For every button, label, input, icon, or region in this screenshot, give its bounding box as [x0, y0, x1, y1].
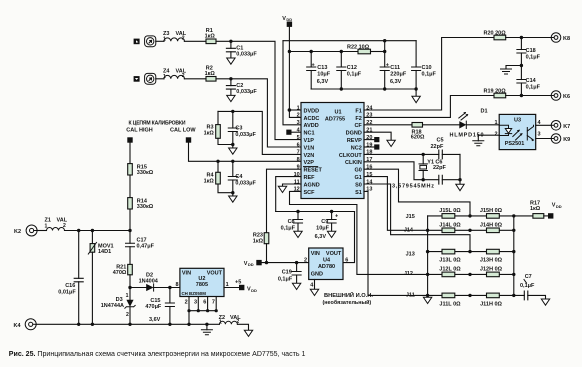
- U1 left pin names: [304, 108, 323, 195]
- svg-text:C18: C18: [526, 48, 536, 54]
- wire R4 bottom join C4: [218, 184, 233, 196]
- resistor R4 1k: [204, 161, 221, 184]
- svg-text:PS2501: PS2501: [505, 141, 525, 147]
- crystal Y1 3,579545MHz: [392, 154, 434, 189]
- svg-text:1: 1: [219, 320, 222, 326]
- svg-text:J14H 0Ω: J14H 0Ω: [480, 222, 503, 228]
- capacitor C14 0,1uF: [517, 66, 541, 96]
- jumper J15L 0R: [439, 208, 461, 218]
- svg-text:1кΩ: 1кΩ: [530, 206, 541, 212]
- resistor R14 330k: [128, 198, 154, 210]
- wire R14 down to Z1 row: [129, 209, 131, 231]
- svg-text:CLKIN: CLKIN: [345, 160, 362, 166]
- regulator U2 7805: [180, 268, 224, 296]
- svg-text:0,033μF: 0,033μF: [236, 89, 257, 95]
- svg-text:+: +: [335, 214, 338, 220]
- svg-text:DGND: DGND: [346, 131, 362, 137]
- connector K8: [551, 33, 570, 43]
- svg-text:3,6V: 3,6V: [149, 317, 161, 323]
- wire R18 to D1: [423, 124, 460, 126]
- capacitor C13 10uF 6,3V: [307, 52, 331, 90]
- junction D2/D3 node: [128, 286, 131, 289]
- J12 row wires: [428, 273, 514, 275]
- wire R19 to K6: [506, 95, 552, 97]
- svg-text:J11L 0Ω: J11L 0Ω: [439, 302, 461, 308]
- wire pin12 SCF route to J12 row: [290, 191, 428, 274]
- svg-text:0,033μF: 0,033μF: [235, 181, 256, 187]
- svg-text:RESET: RESET: [304, 168, 323, 174]
- svg-text:U3: U3: [514, 118, 521, 124]
- capacitor C6 22pF: [433, 159, 460, 184]
- svg-text:SCF: SCF: [304, 190, 316, 196]
- junction J15 right bus: [512, 214, 515, 217]
- capacitor C3 0,033uF: [228, 111, 256, 144]
- wire Z1 row to C17 chain: [65, 231, 131, 244]
- svg-text:VIN: VIN: [182, 271, 191, 277]
- svg-text:R19 20Ω: R19 20Ω: [484, 89, 507, 95]
- junction earth tee: [520, 64, 523, 67]
- svg-text:1: 1: [163, 37, 166, 43]
- capacitor C18 0,1uF: [517, 38, 541, 66]
- svg-text:DD: DD: [556, 204, 562, 209]
- svg-text:J13: J13: [406, 252, 415, 258]
- svg-text:0,1μF: 0,1μF: [281, 226, 296, 232]
- junction bus J12: [426, 273, 429, 276]
- svg-text:K4: K4: [13, 323, 21, 329]
- junction gnd rail C11: [383, 87, 386, 90]
- capacitor C12 0,1uF: [337, 52, 362, 90]
- junction R4C4: [231, 191, 234, 194]
- junction R23 bottom: [265, 261, 268, 264]
- wire R15 to R14: [129, 175, 131, 198]
- svg-text:AD780: AD780: [318, 264, 335, 270]
- ground below C9: [327, 231, 335, 237]
- svg-text:V2P: V2P: [304, 160, 315, 166]
- junction C13 top: [310, 50, 313, 53]
- voltage reference U4 AD780: [309, 248, 343, 280]
- svg-text:J14: J14: [404, 228, 414, 234]
- svg-text:1кΩ: 1кΩ: [253, 238, 264, 244]
- capacitor C15 470uF: [145, 288, 174, 325]
- junction C19 top: [295, 261, 298, 264]
- svg-text:C11: C11: [390, 65, 400, 71]
- svg-text:K8: K8: [563, 36, 570, 42]
- capacitor C10 0,1uF: [412, 41, 437, 89]
- wire pin15 G1 to J14 row: [364, 177, 428, 231]
- junction bus J11: [426, 294, 429, 297]
- wire VDD terminal down to rail and pin1 ACDC jog: [289, 27, 301, 118]
- capacitor C5 22pF: [431, 138, 461, 159]
- svg-text:0,033μF: 0,033μF: [235, 132, 256, 138]
- svg-text:2: 2: [126, 312, 129, 318]
- svg-text:CAL HIGH: CAL HIGH: [126, 127, 153, 133]
- earth ground symbol: [501, 69, 512, 74]
- svg-text:2: 2: [185, 300, 188, 306]
- ground below C2: [227, 95, 235, 101]
- ground triangle below C10: [412, 96, 420, 102]
- svg-text:1кΩ: 1кΩ: [204, 130, 215, 136]
- wire pin10 REF down to ref rail: [276, 177, 301, 212]
- junction C9 top: [330, 210, 333, 213]
- capacitor C9 10uF 6,3V: [315, 212, 339, 241]
- U2 ground rail: [189, 310, 216, 312]
- terminal K3: [134, 76, 140, 82]
- svg-text:CLKOUT: CLKOUT: [339, 153, 363, 159]
- ground below C8: [294, 231, 302, 237]
- wire pin22 CF to R18: [364, 124, 412, 126]
- svg-text:7: 7: [212, 300, 215, 306]
- junction U2 gnd bottom: [187, 323, 190, 326]
- svg-text:R22 10Ω: R22 10Ω: [347, 44, 370, 50]
- svg-text:6,3V: 6,3V: [317, 79, 329, 85]
- pin1 DVDD stub: [289, 109, 301, 111]
- svg-text:C3: C3: [235, 126, 242, 132]
- U1 left pin numbers 1-12: [294, 105, 301, 192]
- jumper J15H 0R: [480, 208, 503, 218]
- wire connector K1 to L3: [156, 40, 164, 42]
- junction Y1 top: [422, 153, 425, 156]
- junction C4 top: [231, 160, 234, 163]
- node VDD top terminal: [282, 16, 292, 27]
- capacitor C2 0,033uF: [226, 79, 257, 96]
- svg-text:K7: K7: [563, 124, 570, 130]
- junction J13 center: [468, 250, 471, 253]
- svg-text:5: 5: [297, 135, 300, 141]
- svg-text:6: 6: [203, 300, 206, 306]
- svg-text:F2: F2: [355, 116, 361, 122]
- junction J14 center: [468, 229, 471, 232]
- svg-text:1кΩ: 1кΩ: [205, 71, 216, 77]
- node VDD J network: [544, 203, 562, 219]
- connector K7: [551, 121, 570, 131]
- wire U3 pin4 to K7: [536, 124, 552, 126]
- svg-text:NC2: NC2: [351, 145, 362, 151]
- svg-text:DD: DD: [251, 288, 257, 293]
- inductor Z2 VAL: [219, 315, 242, 326]
- wire U4 GND down: [314, 280, 316, 290]
- svg-text:3: 3: [297, 120, 300, 126]
- svg-text:C4: C4: [235, 174, 243, 180]
- svg-text:0,01μF: 0,01μF: [58, 289, 76, 295]
- wire pin16 G0 to J15: [364, 169, 470, 216]
- U1 right pin names: [339, 108, 363, 195]
- junction C12 top: [340, 50, 343, 53]
- svg-text:7805: 7805: [196, 282, 208, 288]
- svg-text:J11: J11: [406, 293, 415, 299]
- junction pin1: [288, 108, 292, 112]
- wire pin24 F1 loop to R20: [364, 38, 494, 111]
- svg-text:C14: C14: [526, 78, 537, 84]
- svg-text:C13: C13: [317, 65, 327, 71]
- svg-text:U4: U4: [323, 257, 331, 263]
- wire V2N rail to pin 7: [218, 111, 301, 154]
- svg-text:C16: C16: [65, 283, 75, 289]
- junctions U2 rail: [187, 309, 217, 312]
- ground below U4: [310, 289, 318, 295]
- junction AVDD/riser: [383, 39, 386, 42]
- svg-text:3: 3: [538, 131, 541, 137]
- svg-text:Рис. 25. Принципиальная схема: Рис. 25. Принципиальная схема счетчика э…: [9, 351, 306, 358]
- junction C14 bottom: [520, 94, 523, 97]
- junction gnd riser: [458, 178, 461, 181]
- svg-text:CF: CF: [354, 123, 362, 129]
- node VDD near U4 terminal: [244, 260, 262, 267]
- svg-text:AVDD: AVDD: [304, 123, 319, 129]
- wire to chassis earth: [506, 66, 521, 70]
- ground below C19: [292, 283, 300, 289]
- capacitor C16 0,01uF: [58, 231, 83, 325]
- svg-text:G1: G1: [354, 175, 361, 181]
- svg-text:J15L 0Ω: J15L 0Ω: [439, 208, 461, 214]
- ground below crystal: [456, 184, 464, 190]
- svg-text:GND: GND: [311, 272, 323, 278]
- wire CAL LOW to V2P rail into pin 8: [189, 143, 302, 162]
- resistor R18 620R: [411, 123, 425, 141]
- VDD rail y51.5: [289, 51, 358, 53]
- svg-text:J13H 0Ω: J13H 0Ω: [480, 258, 503, 264]
- pin4 NC1 no-connect: [286, 130, 301, 135]
- ground after Z2: [244, 330, 252, 336]
- svg-text:1N4744A: 1N4744A: [101, 303, 124, 309]
- svg-text:J13L 0Ω: J13L 0Ω: [439, 258, 461, 264]
- jumper J11L 0R: [439, 293, 461, 308]
- svg-text:620Ω: 620Ω: [411, 135, 425, 141]
- ground DGND: [387, 140, 395, 146]
- diode D2 1N4004: [139, 273, 159, 292]
- svg-text:DD: DD: [248, 262, 254, 267]
- earth ground bottom: [201, 324, 212, 334]
- svg-text:0,1μF: 0,1μF: [520, 283, 535, 289]
- wire connector K3 to L4: [156, 78, 164, 80]
- terminal CAL LOW: [186, 137, 191, 142]
- junction C16 top: [77, 229, 80, 232]
- ground low bus: [423, 297, 431, 303]
- resistor R23 1k: [253, 233, 269, 245]
- svg-text:2: 2: [63, 223, 66, 229]
- svg-text:0,1μF: 0,1μF: [422, 71, 437, 77]
- capacitor C1 0,033uF: [226, 41, 257, 58]
- svg-text:1N4004: 1N4004: [139, 278, 159, 284]
- wire R1 to corner, node V1P: [216, 41, 301, 139]
- svg-text:DD: DD: [286, 17, 292, 22]
- svg-text:0,1μF: 0,1μF: [526, 85, 541, 91]
- svg-text:G0: G0: [354, 168, 361, 174]
- svg-text:(необязательный): (необязательный): [323, 299, 372, 306]
- junction C15 bottom: [168, 323, 171, 326]
- junction row2/C2: [229, 77, 232, 80]
- resistor R15 330k: [128, 164, 154, 176]
- svg-text:VOUT: VOUT: [326, 251, 342, 257]
- junction earth drop: [205, 323, 208, 326]
- svg-text:V1P: V1P: [304, 138, 315, 144]
- svg-text:1: 1: [163, 74, 166, 80]
- wire CAL HIGH down: [129, 143, 131, 164]
- svg-text:C5: C5: [437, 138, 444, 144]
- wire D2 to U2 pin8: [154, 287, 180, 289]
- inductor Z3 VAL: [163, 31, 187, 43]
- svg-text:1кΩ: 1кΩ: [204, 178, 215, 184]
- svg-text:0,1μF: 0,1μF: [278, 276, 293, 282]
- svg-text:14D1: 14D1: [98, 249, 111, 255]
- junction C8 top: [296, 210, 299, 213]
- wire Z2 to ground: [237, 324, 248, 330]
- junction VDD rail: [288, 50, 291, 53]
- ground after C7: [541, 299, 549, 305]
- svg-text:22pF: 22pF: [431, 144, 444, 150]
- wire U3 pin3 to K9: [536, 138, 552, 140]
- svg-text:470Ω: 470Ω: [113, 270, 127, 276]
- svg-text:2: 2: [304, 258, 307, 264]
- connector K9: [551, 134, 570, 144]
- capacitor C17 0,47uF: [126, 237, 155, 264]
- wire Z4 to R2: [184, 78, 206, 80]
- jumper J13H 0R: [480, 249, 503, 263]
- svg-text:2: 2: [297, 113, 300, 119]
- J13 row wires: [428, 251, 514, 253]
- U1 right pin numbers 24-13: [366, 105, 373, 192]
- jumper J13L 0R: [439, 249, 461, 263]
- connector K4: [13, 319, 36, 330]
- junction C15 top: [168, 286, 171, 289]
- terminal CAL HIGH: [127, 137, 132, 142]
- wire pin17 CLKIN row: [364, 162, 439, 180]
- connector K2: [14, 225, 37, 236]
- junction J12 center: [468, 273, 471, 276]
- capacitor C11 220uF 6,3V: [380, 52, 407, 90]
- jumper J11H 0R: [480, 293, 502, 308]
- wire node to D2: [130, 287, 146, 289]
- svg-text:6,3V: 6,3V: [315, 234, 327, 240]
- zener D3 1N4744A: [101, 288, 135, 325]
- svg-text:D1: D1: [481, 109, 488, 115]
- J11 row wires: [428, 294, 525, 296]
- LED D1 HLMPD150: [450, 109, 488, 139]
- svg-text:NC1: NC1: [304, 131, 315, 137]
- resistor R20 20R: [484, 31, 507, 40]
- wire R21 to D2 node: [129, 275, 131, 288]
- junction J12 right bus: [512, 273, 515, 276]
- connector K1 jack: [145, 36, 156, 47]
- svg-text:6,3V: 6,3V: [390, 79, 402, 85]
- junction MOV1 top: [91, 229, 94, 232]
- wire pin21 DGND to ground: [364, 132, 391, 140]
- ground rail under C13-C10: [311, 89, 416, 96]
- jumper J14L 0R: [439, 222, 461, 232]
- svg-text:VIN: VIN: [311, 251, 320, 257]
- svg-text:0,47μF: 0,47μF: [137, 244, 155, 250]
- wire pin9 RESET to R23: [267, 169, 302, 233]
- svg-text:8: 8: [175, 282, 178, 288]
- wire pin13 S1 to J11 row: [364, 191, 428, 295]
- capacitor C4 0,033uF: [228, 161, 256, 192]
- terminal K1: [134, 39, 140, 45]
- svg-text:REF: REF: [304, 175, 316, 181]
- wire Z3 to R1: [184, 40, 206, 42]
- svg-text:C1: C1: [236, 45, 243, 51]
- junction J14 right bus: [512, 229, 515, 232]
- svg-text:8: 8: [297, 157, 300, 163]
- svg-text:10μF: 10μF: [316, 226, 329, 232]
- svg-text:+: +: [312, 62, 315, 68]
- junction C11 node: [383, 50, 386, 53]
- svg-text:C17: C17: [137, 237, 147, 243]
- op IC U1 AD7755: [301, 103, 364, 199]
- resistor R22 10R: [347, 44, 371, 54]
- svg-text:K2: K2: [14, 229, 21, 235]
- wire R20 to K8: [506, 37, 552, 39]
- wire pin14 S0 to J13 row: [364, 184, 470, 252]
- wire pin23 F2 loop to R19: [364, 96, 494, 118]
- svg-text:+: +: [386, 62, 389, 68]
- svg-text:J12L 0Ω: J12L 0Ω: [439, 267, 461, 273]
- connector K6: [551, 91, 570, 101]
- capacitor C8 0,1uF: [281, 212, 303, 232]
- wire R2 to corner, node V1N: [216, 79, 301, 147]
- junction D3 bottom: [128, 323, 131, 326]
- svg-text:0,033μF: 0,033μF: [236, 52, 257, 58]
- svg-text:J12H 0Ω: J12H 0Ω: [480, 267, 503, 273]
- svg-text:F1: F1: [355, 108, 361, 114]
- svg-text:1: 1: [297, 105, 300, 111]
- resistor R1 1k: [205, 28, 216, 44]
- junction Y1 bottom: [422, 178, 425, 181]
- svg-text:330кΩ: 330кΩ: [137, 170, 154, 176]
- wire R3 bottom join C3: [218, 138, 233, 148]
- svg-text:1кΩ: 1кΩ: [205, 34, 216, 40]
- svg-text:C9: C9: [321, 219, 328, 225]
- right high bus: [513, 216, 515, 296]
- svg-text:J12: J12: [404, 271, 413, 277]
- svg-text:CH BZ050M: CH BZ050M: [182, 291, 207, 296]
- svg-text:1: 1: [126, 293, 129, 299]
- wire REF rail down to U4 VOUT pin6: [343, 212, 355, 263]
- svg-text:AGND: AGND: [304, 182, 320, 188]
- svg-text:J14L 0Ω: J14L 0Ω: [439, 222, 461, 228]
- svg-text:AD7755: AD7755: [325, 117, 345, 123]
- svg-text:2: 2: [494, 131, 497, 137]
- connector K3 jack: [145, 73, 156, 84]
- earth ground U3: [473, 141, 484, 146]
- svg-text:+5: +5: [235, 279, 241, 285]
- left low bus: [427, 216, 429, 297]
- svg-text:22pF: 22pF: [433, 165, 446, 171]
- junction J11 right bus: [512, 294, 515, 297]
- jumper J12H 0R: [480, 267, 503, 277]
- svg-text:K6: K6: [563, 94, 570, 100]
- ground AGND: [278, 186, 286, 192]
- junction C3 top: [231, 110, 234, 113]
- J14 row wires: [428, 229, 514, 231]
- inductor Z1 VAL: [45, 218, 68, 231]
- junction C18 top: [520, 36, 523, 39]
- varistor MOV1: [88, 231, 113, 325]
- resistor R3 1k: [204, 111, 221, 138]
- pin20 REVP no-connect: [364, 137, 379, 142]
- bottom neutral row: [36, 323, 219, 325]
- wire C5 to gnd riser: [459, 154, 461, 184]
- junction C16 bottom: [77, 323, 80, 326]
- svg-text:6: 6: [297, 142, 300, 148]
- AVDD rail y40.7: [283, 40, 416, 42]
- svg-text:CAL LOW: CAL LOW: [170, 127, 196, 133]
- label external reference: [323, 291, 374, 306]
- wire VDD node to U4 VIN pin2: [262, 262, 309, 264]
- svg-text:C8: C8: [288, 219, 295, 225]
- capacitor C7 0,1uF series: [520, 274, 546, 300]
- resistor R17 1k: [530, 201, 544, 219]
- ground below C1: [227, 58, 235, 64]
- junction R3C3: [231, 143, 234, 146]
